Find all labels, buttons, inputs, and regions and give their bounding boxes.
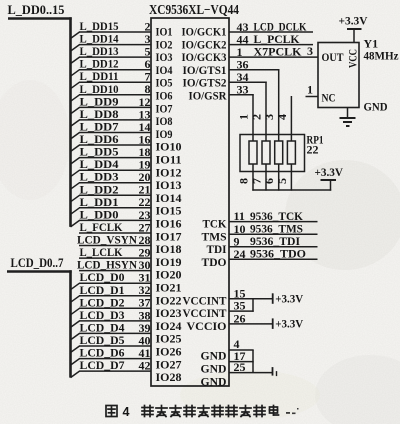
wire GND pin 4 — [229, 349, 254, 351]
wire net L_DD5 to pin 18 — [79, 157, 151, 159]
bus entry wire L_DD5 — [71, 158, 80, 165]
bus entry wire L_DD14 — [71, 45, 80, 52]
svg-text:IO28: IO28 — [156, 370, 182, 384]
svg-text:3: 3 — [307, 44, 313, 58]
svg-text:VCC: VCC — [345, 49, 359, 68]
svg-text:XC9536XL−VQ44: XC9536XL−VQ44 — [149, 3, 239, 18]
wire net L_DD2 to pin 21 — [79, 194, 151, 196]
svg-text:GND: GND — [364, 100, 388, 114]
wire net L_DD9 to pin 12 — [79, 106, 151, 108]
bus entry wire L_DD10 — [71, 95, 80, 102]
wire net LCD_HSYN to pin 30 — [79, 270, 151, 272]
wire net L_FCLK to pin 27 — [79, 232, 151, 234]
wire RP1 bottom lead — [252, 164, 254, 191]
wire net L_DD10 to pin 8 — [79, 94, 151, 96]
bus entry wire LCD_D0 — [71, 283, 80, 290]
wire net L_PCLK from pin 44 — [229, 44, 313, 46]
wire RP1 pin4 stub — [290, 96, 292, 142]
svg-text:+3.3V: +3.3V — [315, 165, 344, 179]
svg-text:48MHz: 48MHz — [364, 49, 400, 63]
wire net L_DD12 to pin 6 — [79, 69, 151, 71]
bus entry wire LCD_D1 — [71, 296, 80, 303]
wire net 9536_TDO from pin 24 — [229, 258, 318, 260]
wire RP1 pullup rail — [252, 189, 331, 191]
scan noise overlay — [0, 0, 1, 1]
wire net LCD_D6 to pin 41 — [79, 358, 151, 360]
power +3.3V tick above Y1 — [353, 30, 355, 44]
wire pin 34 vertical to RP1 — [265, 82, 267, 142]
bus entry wire L_DD1 — [71, 208, 80, 215]
wire net 9536_TMS from pin 10 — [229, 233, 318, 235]
wire net L_DD4 to pin 19 — [79, 169, 151, 171]
svg-text:9536_TDO: 9536_TDO — [250, 247, 306, 261]
wire junction GND pins 4/17/25 — [252, 350, 254, 373]
svg-text:TDO: TDO — [202, 255, 227, 269]
svg-text:24: 24 — [234, 247, 246, 261]
wire GND pin 17 — [229, 361, 254, 363]
wire net LCD_D1 to pin 32 — [79, 295, 151, 297]
bus entry wire L_DD4 — [71, 170, 80, 177]
svg-text:+3.3V: +3.3V — [275, 291, 303, 305]
wire GND pin 25 — [229, 372, 273, 374]
wire net L_DD11 to pin 7 — [79, 81, 151, 83]
svg-text:1: 1 — [307, 83, 313, 97]
svg-text:26: 26 — [234, 312, 246, 326]
svg-text:X7PCLK: X7PCLK — [254, 44, 303, 58]
bus L_DD0..15 horizontal — [8, 17, 72, 20]
wire RP1 bottom lead — [278, 164, 280, 191]
bus entry wire L_DD7 — [71, 133, 80, 140]
wire VCCIO pin 26 — [229, 323, 273, 325]
bus entry wire LCD_D3 — [71, 321, 80, 328]
bus entry wire L_DD13 — [71, 57, 80, 64]
svg-text:IO/GSR: IO/GSR — [189, 89, 227, 103]
svg-text:25: 25 — [234, 360, 246, 374]
wire net LCD_D2 to pin 37 — [79, 307, 151, 309]
svg-text:8: 8 — [237, 178, 251, 184]
wire net LCD_D0 to pin 31 — [79, 282, 151, 284]
bus entry wire L_DD2 — [71, 195, 80, 202]
power +3.3V tick pin26 — [272, 318, 274, 329]
svg-text:22: 22 — [307, 143, 319, 157]
svg-text:VCCIO: VCCIO — [187, 319, 227, 333]
svg-text:LCD_D0..7: LCD_D0..7 — [11, 256, 64, 270]
ground symbol below Y1 — [340, 108, 356, 127]
op IC U1 XC9536XL-VQ44 body — [151, 18, 229, 386]
wire NC stub — [306, 96, 319, 98]
wire net L_DD13 to pin 5 — [79, 56, 151, 58]
wire net LCD_D5 to pin 40 — [79, 345, 151, 347]
wire RP1 bottom lead — [290, 164, 292, 191]
bus L_DD0..15 vertical — [69, 17, 72, 227]
bus entry wire L_DD8 — [71, 120, 80, 127]
wire net 9536_TDI from pin 9 — [229, 246, 318, 248]
power +3.3V tick pin15 — [272, 293, 274, 304]
svg-text:NC: NC — [322, 91, 336, 105]
svg-text:42: 42 — [139, 359, 151, 373]
svg-text:4: 4 — [275, 114, 289, 120]
bus entry wire L_DD9 — [71, 107, 80, 114]
bus entry wire LCD_D7 — [71, 371, 80, 378]
wire pin 33 vertical to RP1 — [252, 94, 254, 141]
wire VCCINT pin 15 — [229, 298, 273, 300]
resistor RP1 element 2 — [262, 141, 270, 164]
bus entry wire L_DD0 — [71, 220, 80, 227]
svg-text:OUT: OUT — [322, 50, 344, 64]
bus entry wire LCD_D2 — [71, 308, 80, 315]
wire junction pins 15/35 — [252, 299, 254, 312]
wire pin 34 horizontal — [229, 81, 267, 83]
wire net 9536_TCK from pin 11 — [229, 221, 318, 223]
bus entry wire L_DD11 — [71, 82, 80, 89]
resistor RP1 element 3 — [275, 141, 283, 164]
bus entry wire L_DD3 — [71, 183, 80, 190]
svg-text:L_DD0..15: L_DD0..15 — [8, 3, 65, 17]
power +3.3V tick for RP1 — [330, 180, 332, 191]
wire net L_DD6 to pin 16 — [79, 144, 151, 146]
svg-text:33: 33 — [237, 83, 249, 97]
bus entry wire LCD_D6 — [71, 359, 80, 366]
wire net L_DD3 to pin 20 — [79, 182, 151, 184]
wire pin 36 horizontal — [229, 69, 279, 71]
bus entry wire LCD_D4 — [71, 333, 80, 340]
bus LCD_D0..7 vertical — [69, 270, 72, 377]
wire net LCD_VSYN to pin 28 — [79, 245, 151, 247]
wire net L_DD15 to pin 2 — [79, 31, 151, 33]
resistor pack RP1 body — [240, 135, 305, 172]
wire net LCD_D3 to pin 38 — [79, 320, 151, 322]
wire net X7PCLK from pin 1 — [229, 56, 318, 58]
caption figure 4 (Chinese) — [106, 406, 117, 417]
wire VCCINT pin 35 — [229, 310, 254, 312]
wire net L_DD7 to pin 14 — [79, 132, 151, 134]
wire RP1 bottom lead — [265, 164, 267, 191]
bus entry wire L_DD12 — [71, 70, 80, 77]
resistor RP1 element 1 — [249, 141, 257, 164]
ground symbol at pin 25 — [273, 367, 277, 376]
svg-text:4: 4 — [123, 405, 130, 419]
wire net LCD_D7 to pin 42 — [79, 370, 151, 372]
wire net LCD_DCLK from pin 43 — [229, 31, 313, 33]
wire net L_DD14 to pin 3 — [79, 44, 151, 46]
wire net LCD_D4 to pin 39 — [79, 332, 151, 334]
svg-text:5: 5 — [275, 178, 289, 184]
svg-text:+3.3V: +3.3V — [339, 14, 368, 28]
svg-text:+3.3V: +3.3V — [275, 316, 303, 330]
svg-text:GND: GND — [201, 374, 227, 388]
wire pin 33 horizontal — [229, 94, 254, 96]
wire net L_LCLK to pin 29 — [79, 257, 151, 259]
wire net L_DD0 to pin 23 — [79, 219, 151, 221]
svg-text:LCD_D7: LCD_D7 — [80, 358, 125, 372]
oscillator Y1 body — [318, 43, 359, 108]
bus entry wire L_DD15 — [71, 32, 80, 39]
caption smudge — [286, 408, 299, 414]
wire net L_DD1 to pin 22 — [79, 207, 151, 209]
wire net L_DD8 to pin 13 — [79, 119, 151, 121]
bus entry wire L_DD6 — [71, 145, 80, 152]
bus entry wire LCD_D5 — [71, 346, 80, 353]
bus LCD_D0..7 horizontal — [7, 270, 72, 273]
svg-text:1: 1 — [237, 114, 251, 120]
wire pin 36 vertical to RP1 — [278, 69, 280, 142]
resistor RP1 element 4 — [287, 141, 295, 164]
